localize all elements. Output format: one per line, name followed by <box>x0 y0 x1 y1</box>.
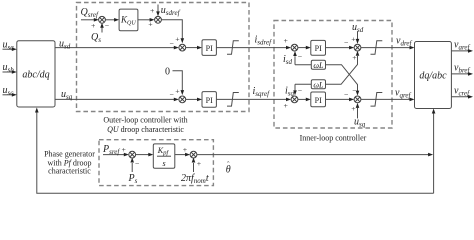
input u_sc <box>3 85 17 97</box>
phase generator dashed box <box>99 140 213 186</box>
caption inner-loop controller <box>300 133 367 142</box>
svg-text:+: + <box>352 53 357 62</box>
feedback i_sd into S4 and wL1 <box>283 51 311 66</box>
block PI3 <box>311 40 326 55</box>
saturation limiter d output <box>371 41 383 55</box>
caption phase generator <box>44 149 95 175</box>
block PI1 <box>202 40 216 56</box>
feedback wire bottom to abc/dq <box>35 108 434 194</box>
wire S3 to PI1 <box>186 46 202 50</box>
svg-text:ωL: ωL <box>313 80 324 89</box>
summing junction S7 (inner q) <box>291 96 298 103</box>
input P_sref <box>102 144 129 156</box>
svg-text:+: + <box>351 104 356 113</box>
svg-text:−: − <box>135 159 140 168</box>
svg-text:+: + <box>284 36 289 45</box>
saturation limiter after PI2 <box>227 93 239 107</box>
label 0 reference <box>165 67 184 100</box>
summing junction S4 (inner d) <box>291 44 298 51</box>
block abc/dq U1 <box>17 41 55 107</box>
output v_bref <box>451 63 473 76</box>
input u_sa <box>3 39 17 51</box>
wire theta output to dq/abc node, label theta hat <box>197 153 433 176</box>
block wL1 <box>311 60 325 70</box>
svg-text:−: − <box>298 53 303 62</box>
wire S9 to K_pf/s <box>136 153 154 157</box>
feedback i_sq into S7 and wL2 <box>285 84 311 97</box>
block K_QU <box>119 9 138 31</box>
svg-text:+: + <box>284 101 289 110</box>
input Q_sref <box>81 7 100 30</box>
wire u_sq q-axis row from abc/dq to sum S6 <box>55 89 179 101</box>
svg-text:characteristic: characteristic <box>48 167 91 176</box>
svg-text:−: − <box>298 87 303 96</box>
svg-text:+: + <box>175 35 180 44</box>
svg-text:+: + <box>91 21 96 30</box>
wire PI3 to sum S5 <box>326 38 355 49</box>
summing junction S3 <box>179 44 186 51</box>
block wL2 <box>311 80 325 90</box>
wire PI4 to sum S8 <box>326 90 355 101</box>
wire S5 to dq/abc, label v_dref <box>361 36 415 50</box>
caption outer-loop controller <box>103 116 187 134</box>
outer-loop controller dashed box <box>77 3 250 112</box>
svg-text:−: − <box>170 91 175 100</box>
wire PI1 to sum S4, label i_sdref <box>216 35 291 50</box>
input u_sq into S8 <box>351 103 365 129</box>
svg-text:0: 0 <box>165 67 170 78</box>
summing junction S9 (P droop) <box>129 151 136 158</box>
wire S2 to sum S3 <box>161 20 184 48</box>
svg-text:PI: PI <box>206 96 213 105</box>
svg-text:PI: PI <box>206 44 213 53</box>
svg-text:+: + <box>150 6 155 15</box>
block K_pf/s integrator <box>153 144 175 168</box>
svg-text:+: + <box>148 20 153 29</box>
summing junction S8 (q output) <box>354 96 361 103</box>
svg-text:+: + <box>183 145 188 154</box>
wire K_pf/s to sum S10 <box>175 145 190 157</box>
wire S6 to PI2 <box>186 98 202 102</box>
svg-text:ωL: ωL <box>313 61 324 70</box>
wire node to dq/abc bottom <box>432 109 436 194</box>
summing junction S6 <box>179 96 186 103</box>
svg-text:QU droop characteristic: QU droop characteristic <box>107 125 184 134</box>
svg-text:Inner-loop controller: Inner-loop controller <box>300 133 367 142</box>
output v_cref <box>451 86 473 99</box>
wire K_QU to sum S2 <box>138 18 155 29</box>
svg-text:abc/dq: abc/dq <box>22 70 49 81</box>
input u_sb <box>3 62 17 74</box>
svg-text:PI: PI <box>315 96 322 105</box>
svg-text:Phase generator: Phase generator <box>44 149 95 158</box>
svg-text:+: + <box>122 145 127 154</box>
svg-text:+: + <box>197 159 202 168</box>
wire S7 to PI4 <box>298 98 311 102</box>
input Q_s into S1 <box>91 22 110 45</box>
summing junction S10 <box>190 151 197 158</box>
wire S1 to K_QU <box>105 18 119 22</box>
svg-text:Outer-loop controller with: Outer-loop controller with <box>103 116 187 125</box>
svg-text:+: + <box>175 86 180 95</box>
wire S8 to dq/abc, label v_qref <box>361 88 415 102</box>
svg-text:−: − <box>170 39 175 48</box>
saturation limiter after PI1 <box>227 41 239 55</box>
svg-text:dq/abc: dq/abc <box>419 71 447 82</box>
cross-coupling wire wL1 to S8 <box>326 65 360 96</box>
svg-text:PI: PI <box>315 44 322 53</box>
saturation limiter q output <box>371 93 383 107</box>
svg-text:−: − <box>105 22 110 31</box>
wire PI2 to sum S7, label i_sqref <box>216 86 291 110</box>
wire u_sd d-axis row from abc/dq to sum S3 <box>55 38 179 50</box>
cross-coupling wire wL2 to S5 <box>326 51 360 85</box>
svg-text:−: − <box>352 87 357 96</box>
summing junction S2 <box>155 16 162 23</box>
summing junction S1 (Q droop) <box>99 16 106 23</box>
output v_aref <box>451 40 473 53</box>
svg-text:−: − <box>344 90 349 99</box>
block PI4 <box>311 92 326 107</box>
block dq/abc U2 <box>415 42 452 109</box>
block PI2 <box>202 92 216 108</box>
inner-loop controller dashed box <box>274 21 392 129</box>
svg-text:s: s <box>162 159 165 168</box>
summing junction S5 (d output) <box>354 44 361 51</box>
wire S4 to PI3 <box>298 46 311 50</box>
svg-text:−: − <box>344 38 349 47</box>
input P_s into S9 <box>128 158 141 186</box>
input u_sdref into S2 <box>150 5 181 18</box>
svg-text:+: + <box>351 35 356 44</box>
input u_sd into S5 <box>351 22 363 44</box>
input 2pi f_nom t into S10 <box>181 158 209 186</box>
